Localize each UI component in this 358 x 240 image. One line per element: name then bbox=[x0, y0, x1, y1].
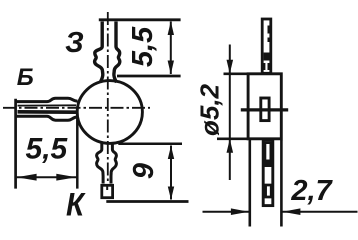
horizontal centerline (front view) bbox=[3, 107, 150, 109]
dimension 9 (collector lead length) bbox=[106, 144, 188, 202]
collector lead (bottom, front view) bbox=[97, 142, 117, 184]
svg-text:З: З bbox=[65, 27, 84, 59]
dimension 2,7 (body thickness) bbox=[203, 140, 358, 227]
emitter lead (side view, top) bbox=[262, 19, 271, 73]
dimension ø5,2 (body diameter) bbox=[217, 45, 248, 181]
lead slot (bottom lead, side view) bbox=[266, 185, 272, 197]
transistor body (front view, circle) bbox=[77, 81, 142, 144]
dimension 5,5 (base lead length) bbox=[16, 99, 78, 189]
svg-text:ø5,2: ø5,2 bbox=[195, 83, 225, 136]
emitter lead (top, front view) bbox=[95, 22, 120, 83]
tip seam mark bbox=[106, 185, 108, 190]
svg-text:2,7: 2,7 bbox=[290, 175, 333, 207]
svg-text:К: К bbox=[66, 187, 86, 223]
svg-text:9: 9 bbox=[128, 163, 160, 179]
svg-text:5,5: 5,5 bbox=[26, 132, 69, 165]
body seam line (side view) bbox=[241, 108, 288, 111]
crystal holder slot (side view) bbox=[261, 98, 269, 121]
svg-text:Б: Б bbox=[17, 64, 34, 91]
collector lead (side view, bottom) bbox=[263, 140, 273, 206]
dimension 5,5 (emitter lead length) bbox=[99, 20, 181, 76]
collector lead flattened tip bbox=[102, 185, 113, 197]
transistor body (side view) bbox=[248, 74, 281, 139]
base lead (left, front view) bbox=[16, 98, 78, 120]
lead seam marks (top lead, side view) bbox=[264, 26, 268, 71]
svg-text:5,5: 5,5 bbox=[127, 26, 159, 67]
lead dark crimp (bottom lead, side view) bbox=[264, 142, 272, 168]
vertical centerline (front view) bbox=[107, 12, 109, 189]
